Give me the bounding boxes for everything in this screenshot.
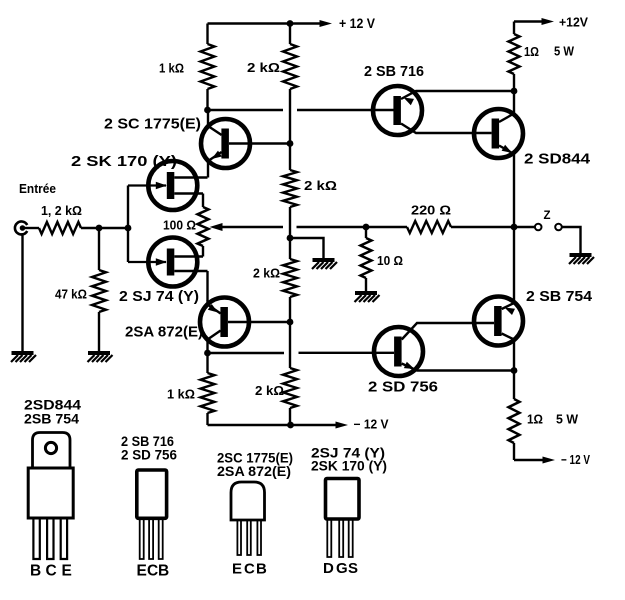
label Z — [544, 210, 551, 222]
wire Q3 gate — [128, 182, 167, 189]
wire ladder segment 2 — [289, 207, 291, 259]
wire Q6 emitter — [499, 145, 514, 154]
label R4 2 kOhm — [304, 179, 337, 193]
svg-text:2 SJ 74 (Y): 2 SJ 74 (Y) — [119, 288, 199, 305]
wire Q2 emitter — [208, 300, 221, 314]
svg-text:1 kΩ: 1 kΩ — [159, 62, 184, 76]
wire node G to crossover — [208, 352, 285, 354]
svg-text:C: C — [147, 563, 158, 580]
label Q1 2SC1775(E) — [104, 116, 201, 133]
svg-text:− 12 V: − 12 V — [354, 418, 390, 432]
label -12V (left) — [354, 418, 390, 432]
wire ground tap — [290, 238, 324, 259]
node E (input divider) — [96, 225, 103, 232]
node K (10 Ohm tap) — [363, 224, 370, 231]
wire Q8 collector — [502, 334, 514, 340]
node top rail / 2k divider — [287, 20, 294, 27]
svg-text:C: C — [244, 561, 255, 578]
wire Q4 gate — [128, 258, 167, 266]
svg-text:10 Ω: 10 Ω — [377, 254, 403, 268]
ground (under 47k) — [88, 353, 113, 362]
wire Q7 emitter — [402, 362, 514, 371]
pin labels P3 E C B — [232, 561, 267, 578]
svg-text:E: E — [232, 561, 242, 578]
svg-text:2 SD844: 2 SD844 — [524, 151, 591, 168]
ground (output return) — [569, 255, 594, 264]
label Q8 2SB754 — [526, 288, 593, 305]
svg-text:1Ω: 1Ω — [527, 413, 543, 427]
wire Q2 collector — [208, 331, 221, 354]
resistor R1 1 kOhm (upper left) — [201, 24, 215, 111]
transistor Q6 2SD844 — [474, 109, 523, 158]
label R11 220 Ohm — [411, 204, 451, 218]
label Q6 2SD844 — [524, 151, 591, 168]
svg-text:Entrée: Entrée — [19, 182, 56, 196]
wire node E to gate bus — [99, 227, 128, 229]
node L (Q7/Q8 emitters) — [511, 367, 518, 374]
wire -12V rail (right) — [514, 459, 543, 461]
wire Q7 collector to Q8 base — [402, 323, 494, 340]
node H (-12V rail / ladder) — [287, 422, 294, 429]
wire Q6 collector — [499, 114, 514, 123]
resistor R5 2 kOhm (third) — [283, 259, 297, 297]
resistor R11 220 Ohm — [366, 221, 514, 233]
svg-text:G: G — [336, 560, 348, 577]
transistor Q2 2SA872 — [200, 298, 249, 347]
svg-text:2 SD 756: 2 SD 756 — [121, 447, 177, 463]
resistor R8 100 Ohm (source coupling) — [198, 207, 209, 246]
svg-text:220 Ω: 220 Ω — [411, 204, 451, 218]
svg-text:2 SB 716: 2 SB 716 — [364, 63, 424, 80]
wire Q1 collector — [208, 110, 222, 135]
wire Q3 source — [174, 194, 203, 208]
transistor Q7 2SD756 — [374, 327, 423, 376]
transistor Q8 2SB754 — [474, 297, 523, 346]
label R7 47 kOhm — [55, 288, 87, 302]
label R12 10 Ohm — [377, 254, 403, 268]
wire +12V rail (right) — [514, 20, 542, 22]
terminal Z left — [535, 224, 542, 231]
svg-text:2 kΩ: 2 kΩ — [247, 61, 280, 75]
svg-text:+ 12 V: + 12 V — [339, 15, 376, 31]
svg-text:E: E — [62, 563, 72, 580]
wire R2 to node E — [81, 227, 99, 229]
svg-text:B: B — [158, 563, 169, 580]
wire Q4 drain — [174, 271, 207, 301]
svg-text:Z: Z — [544, 210, 551, 222]
wire feedback (right of crossover) — [297, 226, 367, 228]
svg-text:D: D — [323, 560, 334, 577]
node C (mid ladder / ground tap) — [287, 235, 294, 242]
ground (mid ladder) — [312, 260, 337, 269]
label Q3 2SK170(Y) — [71, 153, 177, 170]
wire Q4 source — [174, 246, 203, 257]
node F (gate bus) — [125, 225, 132, 232]
resistor R9 1 kOhm (lower left) — [201, 353, 215, 425]
wire Q5 base (from node A) — [208, 109, 394, 111]
label R5 2 kOhm — [253, 267, 280, 281]
label R6 2 kOhm — [255, 384, 284, 398]
svg-text:2 SC 1775(E): 2 SC 1775(E) — [104, 116, 201, 133]
wire terminal to ground — [562, 227, 581, 254]
resistor R6 2 kOhm (bottom of ladder) — [283, 368, 297, 408]
package P1 TO-220 outline — [28, 433, 73, 560]
svg-text:C: C — [46, 563, 57, 580]
svg-text:2SB 754: 2SB 754 — [24, 411, 79, 427]
svg-text:+12V: +12V — [559, 15, 588, 30]
wire ladder segment 3 — [289, 297, 291, 368]
wire Q8 emitter — [502, 303, 515, 315]
svg-text:2 kΩ: 2 kΩ — [253, 267, 280, 281]
label R9 1 kOhm — [167, 388, 195, 402]
ground (under input connector) — [11, 353, 36, 362]
arrow -12V (right) — [543, 457, 556, 464]
wire crossover to Q7 base — [299, 352, 395, 354]
label Entree — [19, 182, 56, 196]
node J (output node) — [511, 224, 518, 231]
wire input to R2 — [25, 227, 39, 229]
svg-text:47 kΩ: 47 kΩ — [55, 288, 87, 302]
svg-text:E: E — [137, 563, 147, 580]
ground (under 10 Ohm) — [355, 293, 380, 302]
svg-text:S: S — [348, 560, 358, 577]
transistor Q3 2SK170 — [148, 161, 197, 210]
svg-text:− 12 V: − 12 V — [561, 453, 591, 467]
label Q4 2SJ74(Y) — [119, 288, 199, 305]
label Q2 2SA872(E) — [125, 324, 203, 341]
resistor R10 1 Ohm 5W (top) — [509, 22, 520, 116]
arrow +12V (left) — [320, 20, 333, 27]
svg-text:2SA 872(E): 2SA 872(E) — [125, 324, 203, 341]
transistor Q4 2SJ74 — [148, 238, 197, 287]
transistor Q1 2SC1775 — [201, 119, 250, 168]
label R10 1 Ohm 5W — [524, 45, 574, 60]
label +12V (left) — [339, 15, 376, 31]
label R3 2 kOhm — [247, 61, 280, 75]
pin labels P2 E C B — [137, 563, 170, 580]
svg-text:2SA 872(E): 2SA 872(E) — [217, 463, 291, 479]
resistor R7 47 kOhm (input shunt) — [92, 228, 106, 352]
pin labels P4 D G S — [323, 560, 358, 577]
svg-text:2 kΩ: 2 kΩ — [304, 179, 337, 193]
package P4 outline — [326, 479, 360, 558]
label package P4 types — [311, 445, 387, 474]
svg-text:5 W: 5 W — [554, 45, 574, 59]
wire right rail mid — [513, 152, 515, 303]
arrow -12V (left) — [336, 422, 349, 429]
wire ladder to -12V rail — [289, 408, 291, 425]
transistor Q5 2SB716 — [373, 86, 422, 135]
wire Q1 base — [229, 142, 290, 144]
node A (R1 / 2SB716 base / Q1 collector) — [204, 107, 211, 114]
label Q7 2SD756 — [368, 379, 438, 396]
pin labels P1 B C E — [30, 563, 72, 580]
resistor R3 2 kOhm (top of ladder) — [283, 24, 297, 90]
wire Q1 emitter — [208, 151, 222, 178]
package P2 outline — [137, 470, 167, 559]
wire +12V rail (left) — [208, 22, 324, 24]
wire Q3 drain — [174, 176, 207, 178]
wire Q5 emitter to rail — [401, 91, 514, 105]
label package P1 types — [24, 397, 81, 427]
wire output to terminal — [514, 226, 535, 228]
label Q5 2SB716 — [364, 63, 424, 80]
svg-text:B: B — [30, 563, 41, 580]
svg-text:2 kΩ: 2 kΩ — [255, 384, 284, 398]
wire Q5 collector to Q6 base — [401, 124, 492, 134]
label +12V (right) — [559, 15, 588, 30]
label R2 1,2 kOhm — [41, 204, 82, 218]
svg-text:1 kΩ: 1 kΩ — [167, 388, 195, 402]
label package P2 types — [121, 433, 177, 463]
wire Q2 base — [228, 321, 290, 323]
label R8 100 Ohm — [163, 219, 196, 233]
label -12V (right) — [561, 453, 591, 467]
wire -12V rail (left) — [208, 424, 337, 426]
terminal Z right — [555, 224, 562, 231]
resistor R12 10 Ohm — [361, 227, 372, 292]
connector J1 input — [15, 222, 27, 235]
arrow +12V (right) — [542, 18, 555, 25]
svg-text:1Ω: 1Ω — [524, 45, 539, 59]
svg-text:B: B — [256, 561, 267, 578]
label package P3 types — [217, 450, 293, 480]
wire ladder segment 1 — [289, 89, 291, 170]
wire feedback with arrow into R8 — [210, 223, 284, 231]
wire gate bus — [127, 186, 129, 263]
node D (Q2 base) — [287, 319, 294, 326]
wire connector sleeve to ground — [21, 233, 23, 352]
package P3 outline — [231, 482, 265, 555]
node I (R10 / Q5 emitter) — [511, 88, 518, 95]
svg-text:1, 2 kΩ: 1, 2 kΩ — [41, 204, 82, 218]
svg-text:100 Ω: 100 Ω — [163, 219, 196, 233]
svg-text:2 SD 756: 2 SD 756 — [368, 379, 438, 396]
svg-text:2 SB 754: 2 SB 754 — [526, 288, 593, 305]
resistor R13 1 Ohm 5W (bottom) — [509, 340, 520, 461]
resistor R4 2 kOhm (second) — [283, 170, 297, 207]
node B (Q1 base) — [287, 140, 294, 147]
label R13 1 Ohm 5W — [527, 413, 578, 427]
svg-text:5 W: 5 W — [556, 413, 578, 427]
resistor R2 1,2 kOhm (series input) — [39, 222, 81, 234]
svg-text:2SK 170 (Y): 2SK 170 (Y) — [311, 458, 387, 474]
label R1 1 kOhm — [159, 62, 184, 76]
node G (Q2 collector / R9) — [204, 350, 211, 357]
